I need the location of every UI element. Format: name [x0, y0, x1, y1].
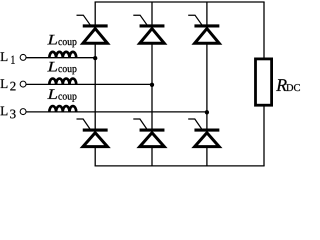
- resistor R_DC body: [256, 59, 272, 105]
- label L3: [1, 107, 16, 119]
- junction node L3-leg3: [205, 110, 209, 114]
- label L2: [1, 79, 16, 90]
- inductor coil L_coup 2: [49, 79, 76, 85]
- terminal circle L2: [20, 81, 26, 87]
- wire right branch upper: [263, 2, 265, 59]
- wire bottom DC rail: [95, 165, 265, 167]
- inductor coil L_coup 1: [49, 52, 76, 58]
- label L1: [1, 52, 15, 63]
- wire leg 1 vertical: [94, 2, 96, 166]
- label R_DC: [276, 79, 300, 91]
- label L_coup 3: [47, 89, 76, 101]
- label L_coup 2: [47, 62, 76, 74]
- wire leg 2 vertical: [151, 2, 153, 166]
- terminal circle L3: [20, 109, 26, 115]
- thyristor T1 top leg1 (gate, cathode bar, triangle): [77, 15, 108, 43]
- thyristor T2 top leg2 (gate, cathode bar, triangle): [133, 15, 164, 43]
- inductor coil L_coup 3: [49, 106, 76, 112]
- thyristor T6 bottom leg3 (gate, cathode bar, triangle): [188, 119, 219, 147]
- wire leg 3 vertical: [206, 2, 208, 166]
- wire right branch lower: [263, 105, 265, 166]
- thyristor T4 bottom leg1 (gate, cathode bar, triangle): [77, 119, 108, 147]
- wire phase L3: [26, 111, 207, 113]
- junction node L1-leg1: [93, 56, 97, 60]
- wire phase L2: [26, 83, 152, 85]
- junction node L2-leg2: [150, 83, 154, 87]
- terminal circle L1: [20, 54, 26, 60]
- thyristor T5 bottom leg2 (gate, cathode bar, triangle): [133, 119, 164, 147]
- wire top DC rail: [95, 1, 265, 3]
- thyristor T3 top leg3 (gate, cathode bar, triangle): [188, 15, 219, 43]
- wire phase L1: [26, 57, 95, 59]
- label L_coup 1: [47, 35, 76, 47]
